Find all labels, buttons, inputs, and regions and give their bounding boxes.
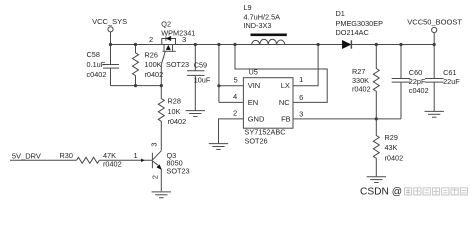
svg-text:c0402: c0402 xyxy=(87,70,107,79)
svg-text:43K: 43K xyxy=(385,143,398,152)
svg-text:PMEG3030EP: PMEG3030EP xyxy=(336,19,384,28)
svg-text:SY7152ABC: SY7152ABC xyxy=(245,127,286,136)
wire EN pin 4 xyxy=(219,101,244,103)
svg-text:r0402: r0402 xyxy=(352,85,371,94)
svg-text:SOT23: SOT23 xyxy=(167,166,190,175)
label R28 value xyxy=(168,97,187,127)
svg-text:VCC50_BOOST: VCC50_BOOST xyxy=(407,17,462,26)
IC U5 box xyxy=(243,78,293,129)
label C59 value xyxy=(194,61,211,85)
svg-text:4: 4 xyxy=(233,92,237,101)
resistor R26 xyxy=(133,45,139,86)
label R26 value xyxy=(145,51,164,79)
svg-text:330K: 330K xyxy=(352,76,369,85)
svg-text:2: 2 xyxy=(233,109,237,118)
svg-text:LX: LX xyxy=(281,81,290,90)
svg-text:FB: FB xyxy=(281,114,291,123)
inductor L9 xyxy=(252,39,285,44)
svg-text:C61: C61 xyxy=(443,68,456,77)
svg-text:2: 2 xyxy=(151,175,160,179)
svg-text:R27: R27 xyxy=(352,67,365,76)
wire LX pin 1 to rail xyxy=(293,45,318,86)
svg-text:22pF: 22pF xyxy=(409,77,426,86)
svg-text:10uF: 10uF xyxy=(194,75,211,84)
label C58 value xyxy=(87,50,107,79)
diode D1 xyxy=(342,40,351,48)
svg-text:DO214AC: DO214AC xyxy=(336,28,369,37)
svg-text:6: 6 xyxy=(299,93,303,102)
wire C58/R26 bottom bus y=85.1 xyxy=(111,85,162,87)
label U5 xyxy=(245,68,291,146)
wire FB pin 3 xyxy=(293,118,401,120)
capacitor C61 xyxy=(425,45,444,112)
svg-text:r0402: r0402 xyxy=(145,70,164,79)
svg-text:R26: R26 xyxy=(145,51,158,60)
label L9 value xyxy=(244,3,281,30)
resistor R29 xyxy=(373,119,379,176)
svg-text:5V_DRV: 5V_DRV xyxy=(12,152,41,161)
wire 5V_DRV to R30 xyxy=(10,159,77,161)
inductor L9 ferrite bar xyxy=(251,34,287,37)
resistor R27 xyxy=(373,45,379,119)
label Q3 value xyxy=(167,151,190,175)
pin arrow on Q3 base wire xyxy=(141,159,144,162)
label R30 value xyxy=(60,151,122,168)
label Q2 xyxy=(161,20,195,70)
wire main VCC rail y=44 xyxy=(111,44,435,46)
svg-text:SOT26: SOT26 xyxy=(245,137,268,146)
ground below R29 xyxy=(367,177,386,183)
svg-text:VCC_SYS: VCC_SYS xyxy=(92,17,127,26)
label R27 value xyxy=(352,67,371,94)
transistor Q2 (P-MOSFET) xyxy=(161,36,176,85)
svg-text:NC: NC xyxy=(279,98,290,107)
svg-text:5: 5 xyxy=(234,75,238,84)
svg-text:SOT23: SOT23 xyxy=(166,60,189,69)
svg-text:IND-3X3: IND-3X3 xyxy=(244,21,272,30)
wire VIN drop from rail xyxy=(218,45,220,103)
resistor R28 xyxy=(158,86,164,151)
svg-text:3: 3 xyxy=(150,143,159,147)
svg-text:0.1uF: 0.1uF xyxy=(87,60,106,69)
svg-text:1: 1 xyxy=(299,75,303,84)
svg-text:Q2: Q2 xyxy=(161,20,171,29)
resistor R30 xyxy=(77,157,100,163)
svg-text:100K: 100K xyxy=(145,60,162,69)
capacitor C59 xyxy=(187,45,205,111)
watermark CJK blocks xyxy=(405,188,468,195)
svg-text:VIN: VIN xyxy=(248,81,261,90)
junction dots xyxy=(109,43,436,121)
svg-text:CSDN @: CSDN @ xyxy=(360,186,402,197)
svg-text:C60: C60 xyxy=(409,68,422,77)
svg-text:R29: R29 xyxy=(385,133,398,142)
node VCC_SYS xyxy=(108,27,113,45)
svg-text:1: 1 xyxy=(134,151,138,160)
svg-text:c0402: c0402 xyxy=(409,86,429,95)
capacitor C60 xyxy=(392,45,411,119)
svg-text:EN: EN xyxy=(248,98,258,107)
svg-text:3: 3 xyxy=(299,109,303,118)
wire VIN pin 5 xyxy=(219,85,244,87)
svg-text:WPM2341: WPM2341 xyxy=(161,29,195,38)
svg-text:R30: R30 xyxy=(60,151,73,160)
wire GND pin 2 xyxy=(219,119,244,144)
label C61 value xyxy=(443,68,460,86)
svg-text:r0402: r0402 xyxy=(385,153,404,162)
svg-text:r0402: r0402 xyxy=(168,117,187,126)
transistor Q3 (NPN 8050) xyxy=(152,151,161,191)
wire R30 to Q3 base xyxy=(99,159,152,161)
svg-text:r0402: r0402 xyxy=(103,160,122,169)
ground below Q3 xyxy=(152,192,171,198)
node VCC50_BOOST xyxy=(432,27,437,44)
svg-text:C58: C58 xyxy=(87,50,100,59)
ground below C61 xyxy=(425,111,444,117)
label R29 value xyxy=(385,133,404,162)
label C60 value xyxy=(409,68,429,95)
svg-text:10K: 10K xyxy=(168,107,181,116)
svg-text:GND: GND xyxy=(248,114,265,123)
svg-text:L9: L9 xyxy=(244,3,252,12)
watermark CSDN xyxy=(360,186,402,197)
ground below U5 GND xyxy=(209,144,228,150)
svg-text:3: 3 xyxy=(182,35,186,44)
svg-text:R28: R28 xyxy=(168,97,181,106)
svg-text:2: 2 xyxy=(149,35,153,44)
label D1 value xyxy=(336,9,384,37)
svg-text:D1: D1 xyxy=(336,9,345,18)
capacitor C58 xyxy=(103,45,119,86)
wire NC pin 6 loop to rail xyxy=(235,45,327,103)
svg-text:22uF: 22uF xyxy=(443,77,460,86)
svg-text:C59: C59 xyxy=(194,61,207,70)
ground below C59 xyxy=(186,111,205,117)
